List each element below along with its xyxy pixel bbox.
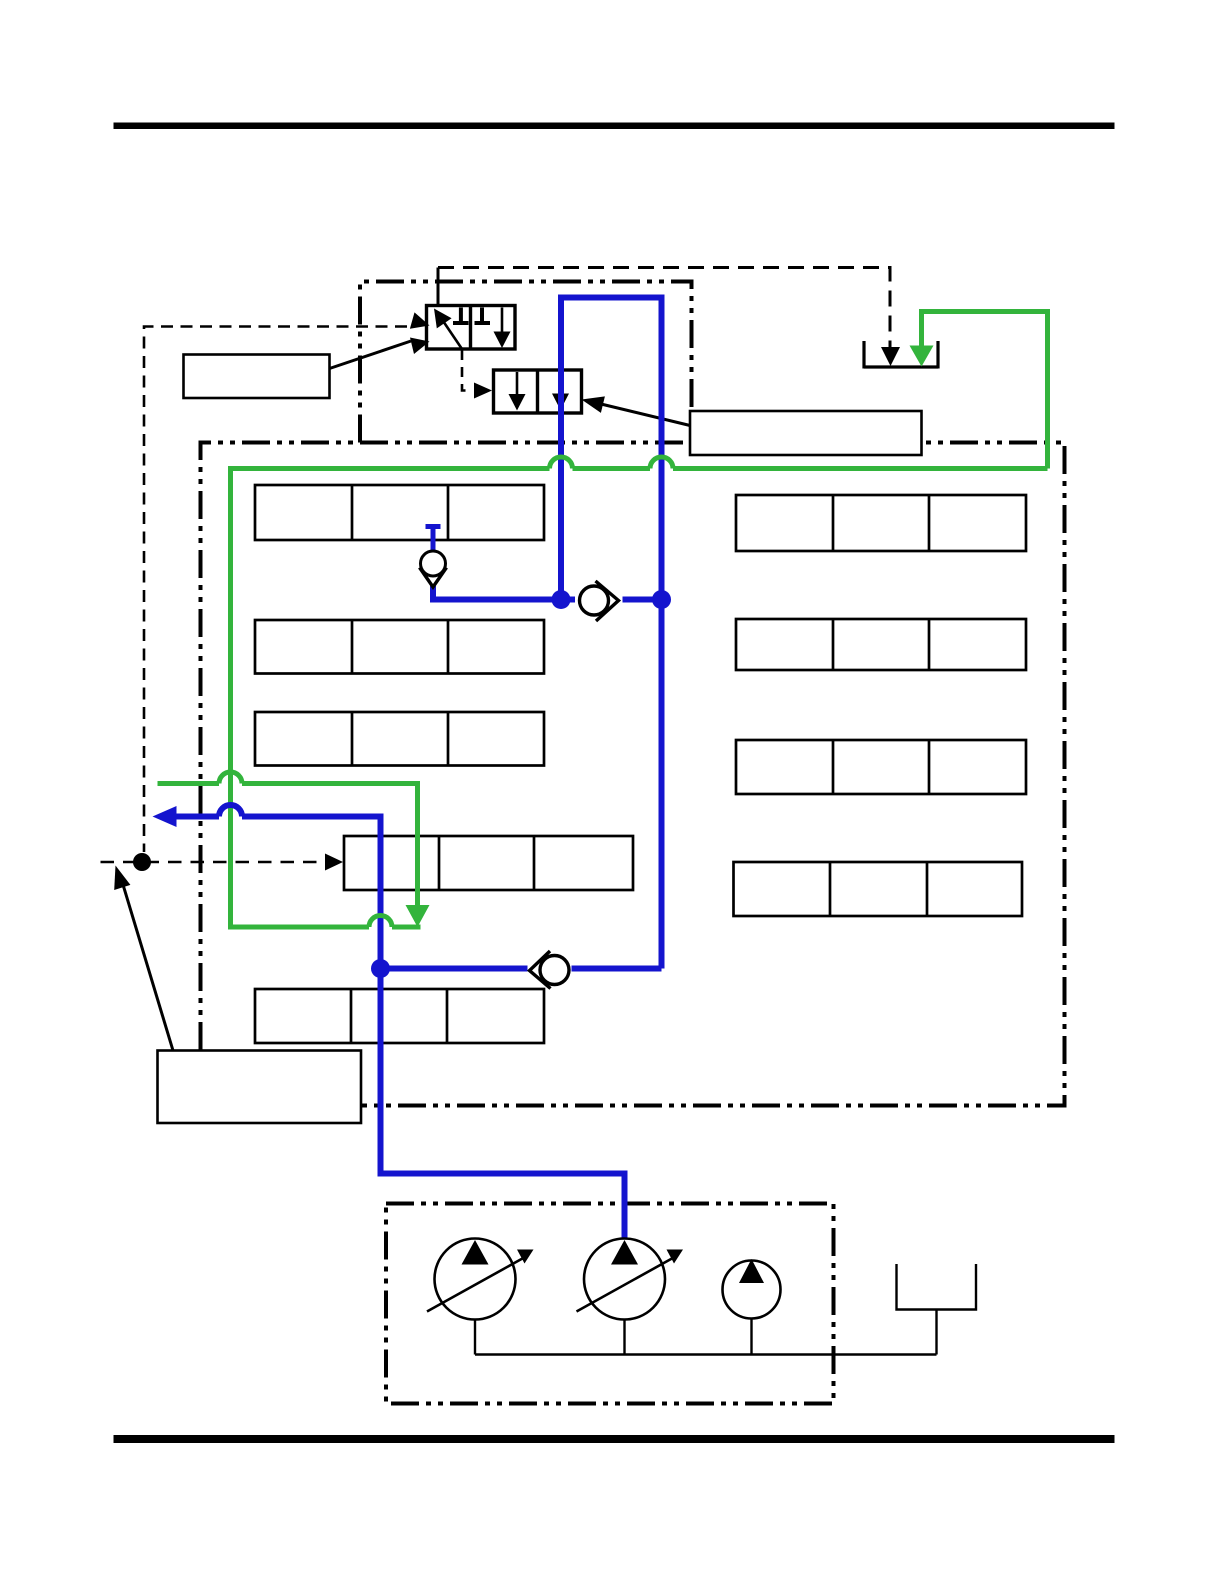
blue pressure loop over valves — [561, 298, 662, 969]
arrowhead into box B4 — [325, 854, 343, 871]
node dot on sense line — [133, 853, 151, 871]
valve V1 body — [427, 306, 516, 350]
green return main run left + down leg + lower run — [231, 469, 550, 928]
label box LB1 (points to valve V1) — [184, 355, 330, 399]
label box LB2 (points to valve V2) — [690, 411, 922, 455]
legend box L1 — [255, 485, 544, 540]
legend box B5 — [255, 989, 544, 1043]
legend box L2 — [255, 620, 544, 674]
dashed pilot link V1 to V2 — [462, 350, 472, 391]
blue left arrow run + down leg to pump P2 — [176, 814, 219, 820]
valve V2 body — [494, 370, 582, 413]
bottom rule bar — [114, 1435, 1115, 1443]
blue stem below check valve CV1 — [433, 586, 575, 600]
pilot arrow into V1 from LB1 leader — [410, 338, 430, 355]
valve V1 diagonal actuator arrow — [439, 315, 462, 349]
green arrow down onto lower run — [406, 905, 430, 927]
leader line LB3 to sense line — [121, 878, 173, 1051]
blue arrowhead (left) — [153, 806, 177, 827]
check valve CV1 (below blue T) — [420, 551, 447, 587]
main system dash-dot boundary — [201, 443, 1065, 1106]
dashed callout boundary (left) : top edge + left edge — [144, 327, 407, 853]
valve V2 flow arrow (right cell) — [559, 372, 562, 397]
green arrow into tank T1 — [910, 346, 934, 367]
green return main run (right portion with hop gaps) — [673, 466, 1048, 471]
legend box R2 — [736, 619, 1026, 670]
tank T2 (bottom right) — [897, 1264, 977, 1310]
dashed sense line with node dot to box B4 — [101, 861, 326, 864]
tank T1 — [864, 341, 938, 369]
green branch line (left stub + down arrow leg) — [158, 781, 220, 786]
blue hop over green at (230,816) — [219, 805, 242, 817]
junction dot — [552, 590, 571, 609]
solid drop from pilot line into valve V1 — [437, 268, 440, 306]
pilot arrow into V1 from dashed line — [410, 312, 430, 328]
legend box B4 — [344, 836, 633, 890]
valve V2 flow arrow (left cell) — [516, 372, 519, 397]
legend box R4 — [734, 862, 1023, 916]
green return line: tank T1 drop — [922, 312, 1048, 469]
label box LB3 (points to sense node) — [158, 1051, 362, 1124]
pump P3 (fixed displacement) — [723, 1259, 781, 1319]
legend box L3 — [255, 712, 544, 766]
pump P1 (variable displacement) — [427, 1239, 534, 1320]
junction dot — [371, 959, 390, 978]
leader line LB1 to valve V1 — [330, 341, 412, 369]
green hop over blue at (380,927) — [369, 916, 392, 928]
green hop over green at (230,783) — [219, 772, 242, 783]
green hop over blue at (661,468) — [650, 457, 673, 468]
leader line LB2 to valve V2 — [601, 404, 690, 426]
valve-group dash-dot boundary — [360, 282, 692, 443]
dashed pilot line from valve V1 to tank T1 — [438, 268, 890, 348]
blue lower run through check valve CV2 — [381, 966, 528, 972]
blue T-port at box L1 — [426, 524, 441, 529]
top rule bar — [114, 123, 1115, 130]
legend box R3 — [736, 740, 1026, 794]
pump suction lines and manifold — [475, 1310, 937, 1355]
junction dot — [652, 590, 671, 609]
legend box R1 — [736, 495, 1026, 551]
valve V1 flow arrow (right cell) — [501, 308, 504, 334]
pump-group dash-dot boundary — [386, 1204, 834, 1404]
flow symbol FS2 (points left) — [530, 951, 570, 989]
flow symbol FS1 (points right) — [580, 581, 619, 621]
valve V1 blocked port (right cell) — [475, 308, 491, 324]
pump P2 (variable displacement) — [577, 1239, 684, 1320]
green hop over blue at (561,468) — [550, 457, 573, 468]
valve V1 blocked port (left cell) — [453, 308, 469, 324]
arrowhead into tank T1 — [881, 347, 900, 366]
